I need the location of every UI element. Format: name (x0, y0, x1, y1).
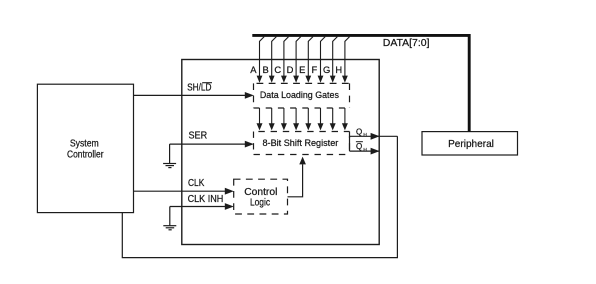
svg-text:G: G (323, 64, 330, 75)
svg-text:H: H (335, 64, 342, 75)
svg-text:Controller: Controller (67, 150, 104, 161)
svg-text:Control: Control (244, 187, 277, 198)
svg-text:B: B (262, 64, 268, 75)
svg-text:H: H (363, 132, 367, 138)
svg-text:F: F (312, 64, 318, 75)
svg-text:D: D (287, 64, 294, 75)
svg-text:C: C (274, 64, 281, 75)
svg-text:SER: SER (189, 130, 208, 141)
svg-text:Data Loading Gates: Data Loading Gates (260, 90, 339, 101)
svg-text:CLK: CLK (188, 178, 204, 189)
svg-text:8-Bit Shift Register: 8-Bit Shift Register (263, 138, 339, 149)
svg-text:Q: Q (356, 127, 362, 136)
svg-text:A: A (250, 64, 257, 75)
svg-text:Logic: Logic (250, 198, 270, 209)
svg-text:H: H (363, 147, 367, 153)
svg-text:Q: Q (356, 142, 362, 151)
svg-text:System: System (70, 138, 99, 149)
svg-text:DATA[7:0]: DATA[7:0] (383, 38, 430, 49)
svg-text:Peripheral: Peripheral (448, 139, 494, 150)
svg-text:E: E (299, 64, 305, 75)
svg-text:SH/LD: SH/LD (187, 83, 211, 94)
svg-text:CLK INH: CLK INH (188, 194, 224, 205)
